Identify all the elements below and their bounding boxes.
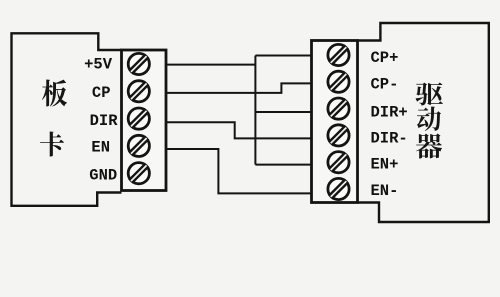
svg-text:CP+: CP+ <box>371 49 399 67</box>
driver box (驱动器) <box>358 23 489 222</box>
svg-text:DIR+: DIR+ <box>371 104 408 122</box>
svg-text:GND: GND <box>89 167 117 185</box>
wire bus to CP+ <box>255 55 313 57</box>
screw terminal CP- (right pin 2) <box>328 71 349 92</box>
wire bus to DIR+ <box>255 111 313 113</box>
svg-text:CP: CP <box>92 84 111 102</box>
screw terminal EN (left pin 4) <box>128 135 149 156</box>
screw terminal GND (left pin 5) <box>128 163 149 184</box>
wire DIR to DIR- <box>166 122 313 138</box>
svg-text:DIR-: DIR- <box>371 130 408 148</box>
label 板 <box>42 80 67 107</box>
screw terminal EN- (right pin 6) <box>328 178 349 199</box>
svg-text:EN: EN <box>91 139 110 157</box>
wire +5V to common-anode bus <box>166 64 255 66</box>
left terminal block J1 <box>122 50 167 191</box>
svg-text:EN-: EN- <box>371 182 399 200</box>
svg-text:+5V: +5V <box>84 56 113 74</box>
wire bus vertical (+5V common) <box>254 56 256 165</box>
board box (板卡) <box>12 33 122 206</box>
screw terminal DIR- (right pin 4) <box>328 125 349 146</box>
label 卡 <box>40 131 64 156</box>
wire EN to EN- <box>166 149 313 193</box>
screw terminal EN+ (right pin 5) <box>328 152 349 173</box>
screw terminal DIR+ (right pin 3) <box>328 98 349 119</box>
wire CP to CP- <box>166 83 313 93</box>
screw terminal +5V (left pin 1) <box>128 53 149 74</box>
screw terminal CP+ (right pin 1) <box>328 44 349 65</box>
svg-text:EN+: EN+ <box>371 156 399 174</box>
screw terminal DIR (left pin 3) <box>128 108 149 129</box>
label 驱 <box>416 83 444 106</box>
screw terminal CP (left pin 2) <box>128 81 149 102</box>
label 器 <box>416 133 442 158</box>
svg-text:DIR: DIR <box>90 112 119 130</box>
right terminal block J2 <box>312 41 358 203</box>
svg-text:CP-: CP- <box>371 76 399 94</box>
wire bus to EN+ <box>255 164 313 166</box>
label 动 <box>417 106 441 131</box>
